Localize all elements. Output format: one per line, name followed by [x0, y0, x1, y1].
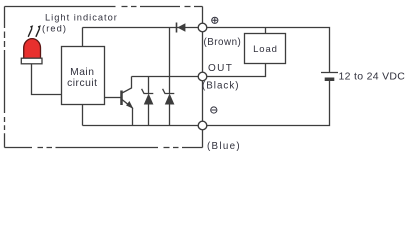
wire: LED cathode lead down then right to main circuit — [32, 64, 62, 95]
svg-text:(red): (red) — [42, 24, 67, 34]
wire: load bottom riser to OUT wire — [207, 64, 266, 77]
zener diode ZD2 triangle — [165, 94, 175, 105]
transistor Q1 collector — [122, 77, 132, 94]
svg-text:OUT: OUT — [208, 63, 233, 74]
wire: OUT line from collector to OUT terminal — [132, 76, 199, 78]
wire: blue 0V line to supply — [207, 81, 330, 126]
LED indicator body (red) — [24, 39, 41, 59]
svg-text:Light indicator: Light indicator — [45, 12, 118, 22]
terminal minus (Blue) — [198, 121, 207, 130]
zener diode ZD1 cathode bar with bent end — [142, 89, 154, 94]
svg-text:(Blue): (Blue) — [207, 141, 241, 152]
LED light arrow 2 — [36, 28, 40, 36]
svg-text:(Black): (Black) — [202, 81, 239, 92]
enclosure dash-dot box top border — [5, 6, 203, 8]
zener diode ZD1 bottom lead — [148, 104, 150, 125]
svg-text:Main: Main — [70, 67, 94, 78]
transistor Q1 emitter — [122, 100, 133, 126]
zener diode ZD1 top riser — [148, 77, 150, 94]
wire: load top riser — [265, 28, 267, 34]
transistor Q1 base bar — [120, 91, 123, 106]
terminal plus (Brown) — [198, 23, 207, 32]
enclosure dash-dot box left border — [4, 7, 6, 148]
wire: internal +V rail to plus terminal — [83, 27, 199, 29]
label: Main circuit — [67, 67, 97, 89]
enclosure dash-dot box bottom border — [5, 147, 203, 149]
wire: base wire from main circuit to transistor — [105, 97, 121, 99]
svg-text:circuit: circuit — [67, 78, 97, 89]
transistor Q1 emitter arrowhead — [126, 101, 133, 109]
zener diode ZD2 cathode bar with bent end — [163, 89, 175, 94]
wire: brown +V line to supply — [207, 28, 330, 73]
label: 12 to 24 VDC — [339, 71, 406, 83]
wire: zener ZD2 top riser from +V rail crossing OUT line — [169, 28, 171, 94]
minus symbol near blue terminal — [211, 107, 217, 113]
zener diode ZD1 triangle — [144, 94, 154, 105]
wire: main circuit bottom riser to 0V rail — [82, 105, 84, 126]
wire: main circuit top riser to +V rail — [82, 28, 84, 47]
main circuit box — [62, 47, 105, 105]
wire: 0V rail to minus terminal — [83, 125, 199, 127]
plus symbol near brown terminal — [212, 17, 218, 23]
zener diode ZD2 bottom lead — [169, 104, 171, 125]
battery positive plate — [321, 72, 338, 74]
LED light arrow 1 — [28, 28, 32, 36]
diode D1 triangle (anode right, pointing left) — [177, 23, 185, 32]
enclosure right border through terminals — [202, 7, 204, 148]
LED base flange — [21, 58, 42, 64]
battery negative plate (thick) — [325, 78, 335, 82]
svg-text:Load: Load — [253, 44, 278, 55]
label: Light indicator — [42, 12, 118, 33]
diode D1 cathode bar — [176, 23, 178, 33]
terminal OUT (Black) — [198, 72, 207, 81]
svg-text:(Brown): (Brown) — [204, 37, 242, 48]
svg-text:12 to 24 VDC: 12 to 24 VDC — [339, 71, 406, 83]
label: Load — [253, 44, 278, 55]
label: (Brown) — [202, 37, 241, 152]
load box — [245, 34, 286, 64]
